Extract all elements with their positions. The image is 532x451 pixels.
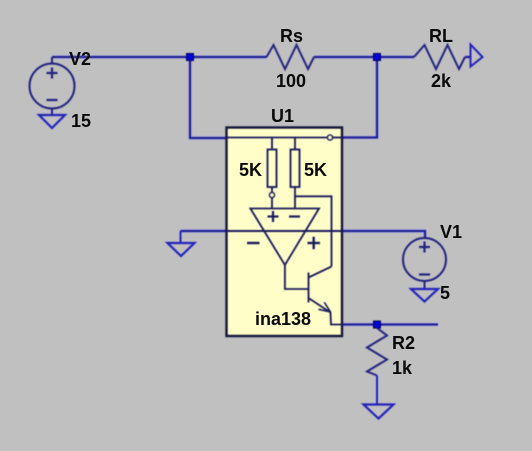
minus mark top-right input (289, 215, 300, 217)
resistor Rs (267, 45, 315, 69)
ground below R2 (364, 405, 394, 419)
emitter arrowhead (319, 302, 331, 312)
junction A (187, 54, 194, 61)
wire junction B down to U1 top-right pin (341, 57, 377, 138)
label 5K left (239, 160, 262, 181)
wire Rs to junction B and on to RL (314, 55, 414, 59)
plus mark right pin (308, 237, 321, 249)
U1 internal top rail (227, 137, 343, 139)
label V1 (440, 222, 462, 243)
wire U1 output to R2 rail (342, 323, 438, 327)
label V2 (69, 49, 91, 70)
pin circle top-right (327, 135, 332, 140)
minus mark left pin (247, 242, 260, 244)
op-amp triangle (250, 209, 319, 266)
ground left of U1 (168, 231, 195, 256)
value 1k (392, 358, 412, 379)
output flag (471, 45, 483, 67)
transistor Q1 (285, 265, 342, 325)
label Rs (280, 26, 303, 47)
wire left ground to U1 minus pin (181, 229, 228, 233)
ground below V2 (39, 115, 65, 128)
through wire minus/plus pins (227, 230, 343, 232)
resistor 5K left (268, 138, 277, 193)
wire top rail V2 to Rs (52, 55, 267, 59)
value 2k (431, 71, 451, 92)
wire right 5K to collector rail (295, 196, 332, 266)
label RL (429, 26, 453, 47)
junction C (374, 321, 381, 328)
resistor R2 (367, 328, 387, 376)
wire R2 to ground (376, 376, 378, 405)
wire left 5K to op-amp input (271, 198, 273, 209)
label 5K right (304, 160, 327, 181)
pin circle below left 5K (269, 192, 274, 197)
label U1 (271, 106, 294, 127)
resistor 5K right (291, 138, 300, 209)
op-amp U1 box (227, 128, 343, 337)
value 100 (276, 71, 306, 92)
label ina138 (255, 309, 311, 330)
resistor RL (414, 45, 465, 69)
value 15 (71, 111, 91, 132)
value 5 (440, 283, 450, 304)
voltage source V1 (403, 238, 446, 289)
wire junction A down into U1 top rail (190, 57, 227, 138)
plus mark top-left input (268, 211, 279, 222)
voltage source V2 (30, 57, 75, 115)
wire RL to output flag (465, 55, 471, 59)
label R2 (392, 333, 415, 354)
junction B (374, 54, 381, 61)
wire U1 plus pin to V1 (342, 231, 425, 239)
ground below V1 (411, 289, 438, 302)
